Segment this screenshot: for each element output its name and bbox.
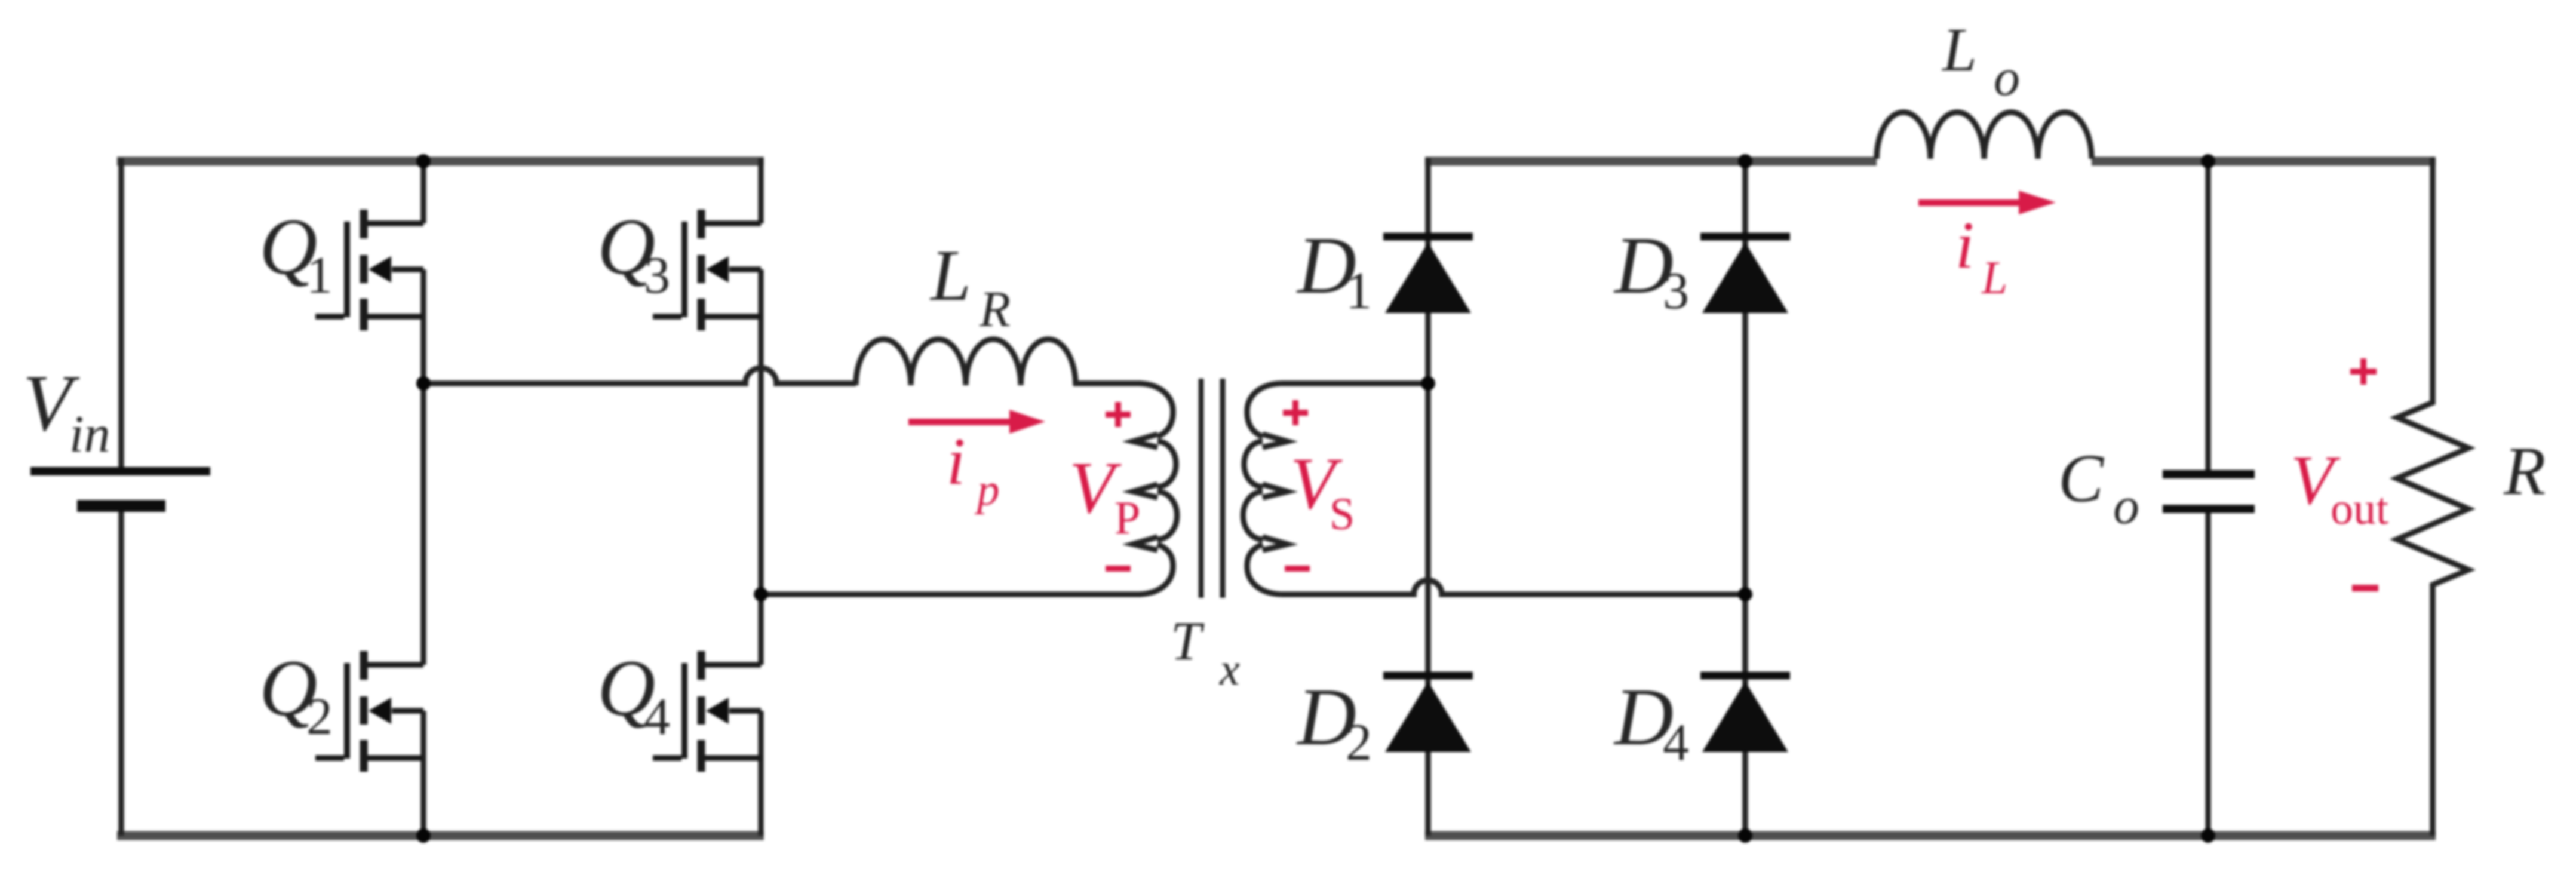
svg-text:L: L (1941, 16, 1977, 84)
svg-text:1: 1 (1346, 262, 1372, 320)
svg-text:S: S (1330, 489, 1355, 539)
svg-text:V: V (1069, 447, 1122, 529)
svg-text:4: 4 (644, 688, 670, 746)
svg-text:T: T (1171, 610, 1205, 671)
svg-text:4: 4 (1663, 714, 1689, 772)
svg-text:out: out (2331, 484, 2388, 534)
svg-text:3: 3 (644, 247, 670, 305)
svg-text:3: 3 (1663, 262, 1689, 320)
svg-text:x: x (1219, 644, 1240, 695)
svg-text:L: L (1981, 251, 2007, 303)
svg-text:L: L (929, 235, 971, 316)
svg-text:P: P (1114, 492, 1140, 544)
svg-text:R: R (2503, 433, 2546, 509)
svg-text:p: p (974, 465, 1000, 515)
svg-text:2: 2 (1346, 714, 1372, 772)
svg-text:R: R (979, 281, 1011, 337)
svg-text:o: o (2113, 477, 2139, 535)
svg-text:i: i (1955, 208, 1974, 283)
svg-text:in: in (69, 406, 110, 464)
svg-text:C: C (2058, 440, 2105, 516)
svg-text:2: 2 (306, 688, 333, 746)
svg-text:o: o (1994, 49, 2020, 107)
svg-text:i: i (947, 425, 965, 499)
svg-text:1: 1 (306, 247, 333, 305)
